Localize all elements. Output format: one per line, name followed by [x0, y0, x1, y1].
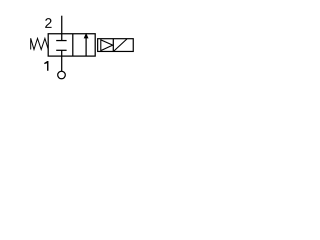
- wire port 1: [61, 50, 63, 71]
- valve body outer box: [48, 34, 95, 56]
- port 1 connection circle: [58, 71, 66, 79]
- solenoid cell divider: [112, 39, 114, 52]
- return spring: [31, 38, 49, 49]
- solenoid pilot triangle: [101, 40, 113, 51]
- solenoid coil box: [98, 39, 134, 52]
- blocked port T-bar bottom (left cell): [56, 49, 66, 51]
- blocked port T-bar top (left cell): [56, 40, 66, 42]
- port label 1: [44, 61, 48, 71]
- wire port 2: [61, 16, 63, 41]
- port label 2: [45, 18, 51, 28]
- solenoid diagonal stroke: [114, 39, 127, 51]
- valve position divider: [72, 34, 74, 56]
- flow arrow (right cell): [85, 38, 87, 56]
